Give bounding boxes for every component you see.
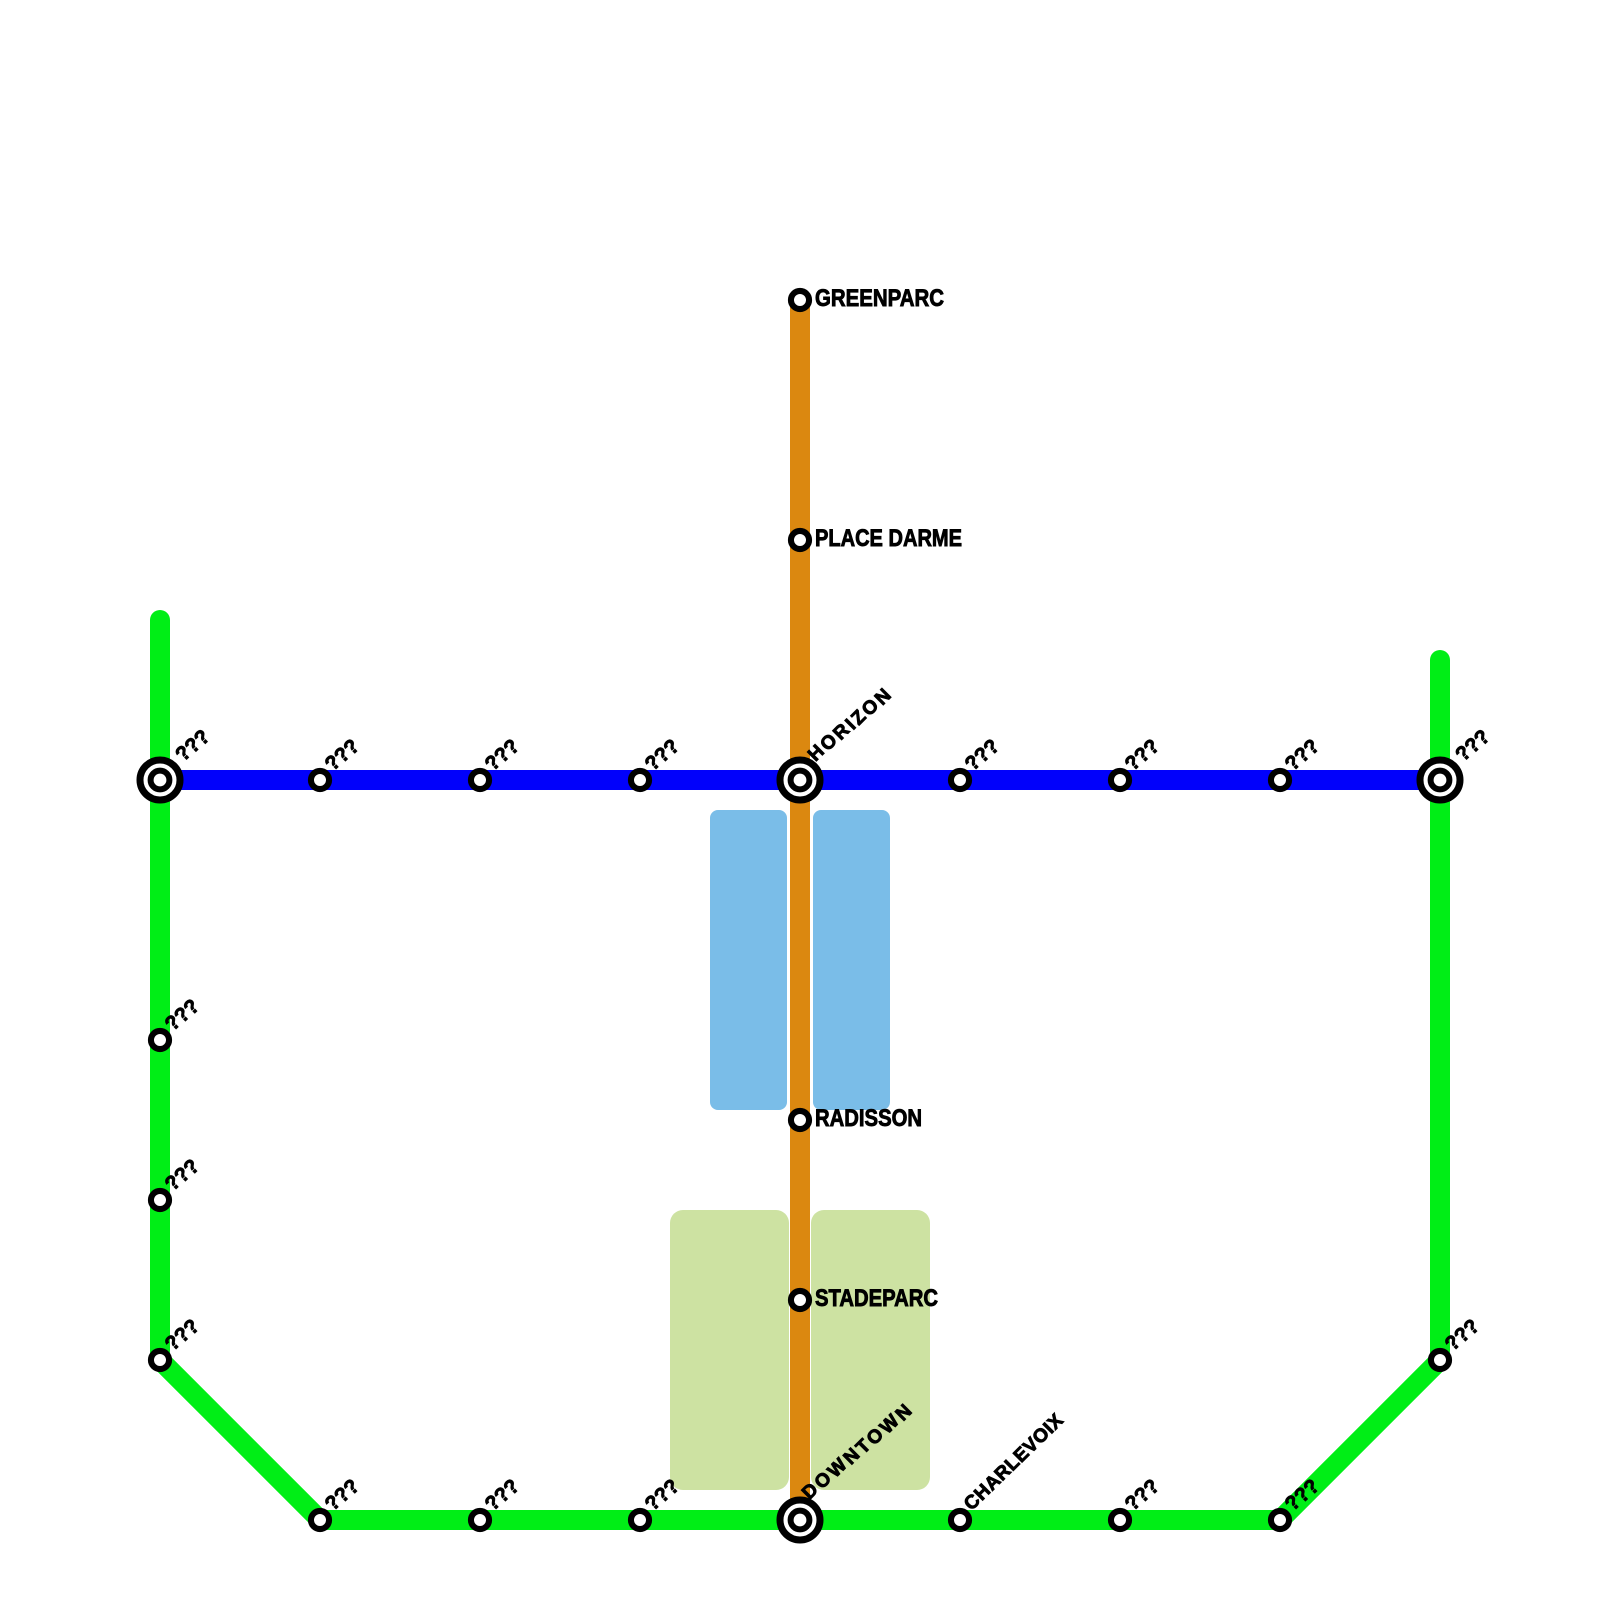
green line station 1040: [151, 1031, 169, 1049]
green line station 1200: [151, 1191, 169, 1209]
blue line station 1280: [1271, 771, 1289, 789]
green line: [160, 620, 1440, 1520]
orange line: [790, 300, 810, 1520]
interchange east: [1420, 760, 1460, 800]
water area right rect: [813, 810, 890, 1110]
svg-text:RADISSON: RADISSON: [815, 1105, 922, 1132]
svg-text:STADEPARC: STADEPARC: [815, 1285, 938, 1312]
interchange DOWNTOWN: [780, 1500, 820, 1540]
interchange HORIZON: [780, 760, 820, 800]
green line corner station 1280: [1271, 1511, 1289, 1529]
svg-text:GREENPARC: GREENPARC: [815, 285, 944, 312]
green line station 480: [471, 1511, 489, 1529]
green line station 1120: [1111, 1511, 1129, 1529]
station CHARLEVOIX: [951, 1511, 969, 1529]
water area left rect: [710, 810, 787, 1110]
interchange west: [140, 760, 180, 800]
station STADEPARC: [791, 1291, 809, 1309]
blue line station 320: [311, 771, 329, 789]
blue line station 1120: [1111, 771, 1129, 789]
park area right rect: [811, 1210, 930, 1490]
blue line station 640: [631, 771, 649, 789]
station GREENPARC: [791, 291, 809, 309]
green line corner station 320: [311, 1511, 329, 1529]
blue line station 960: [951, 771, 969, 789]
svg-text:PLACE DARME: PLACE DARME: [815, 525, 962, 552]
station RADISSON: [791, 1111, 809, 1129]
park area left rect: [670, 1210, 789, 1490]
blue line station 480: [471, 771, 489, 789]
green line station 640: [631, 1511, 649, 1529]
station PLACE DARME: [791, 531, 809, 549]
green line station 1360: [151, 1351, 169, 1369]
green line station right 1360: [1431, 1351, 1449, 1369]
blue line: [160, 770, 1440, 790]
